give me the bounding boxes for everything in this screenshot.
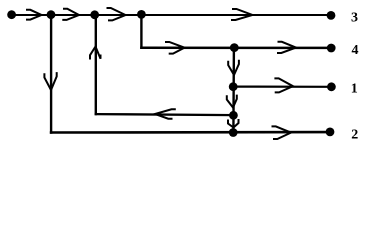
svg-text:3: 3 <box>351 10 358 25</box>
svg-text:1: 1 <box>351 82 358 97</box>
svg-text:4: 4 <box>352 43 359 58</box>
svg-text:2: 2 <box>351 128 358 143</box>
